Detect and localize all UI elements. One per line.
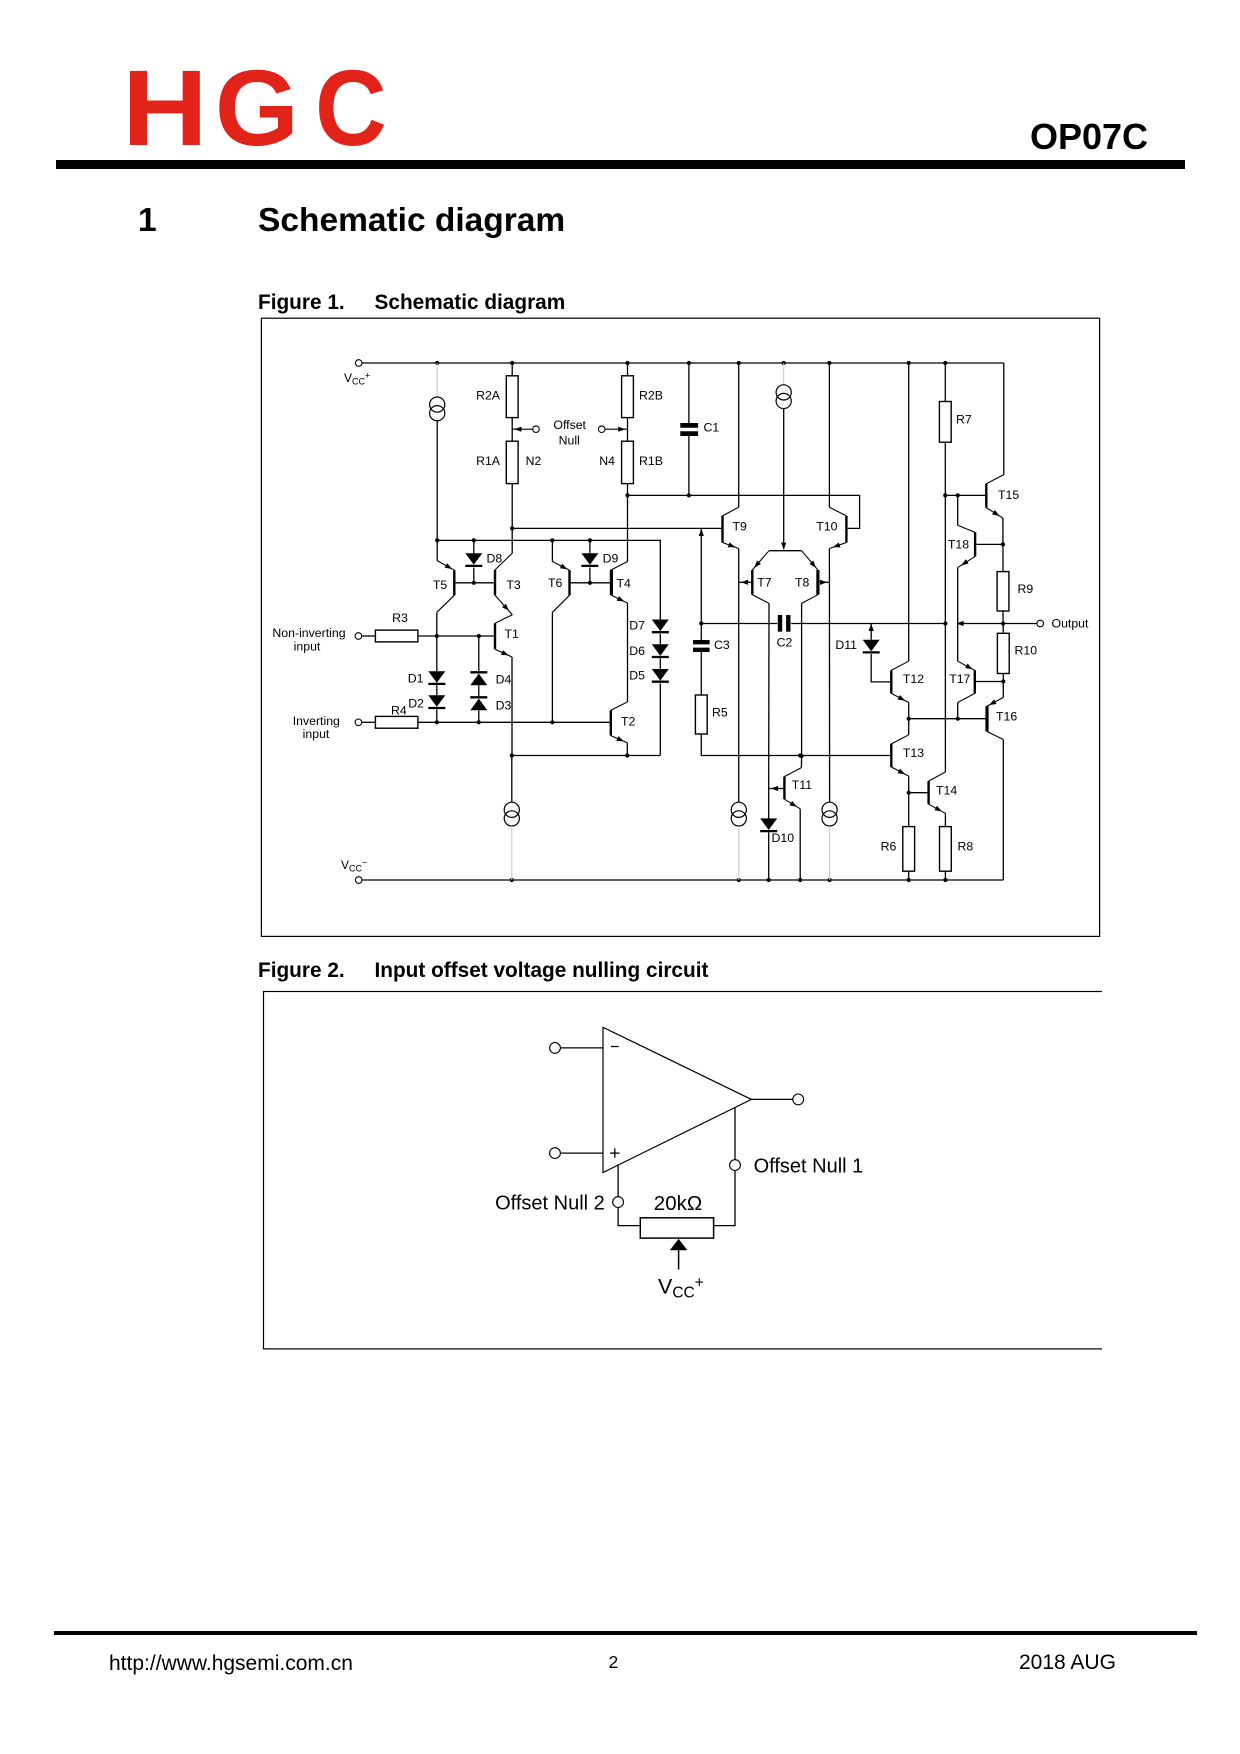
junction dots on bias bus (435, 538, 439, 542)
svg-text:C1: C1 (704, 421, 720, 435)
svg-text:Inverting: Inverting (293, 714, 340, 728)
wire D8 cathode to base line (473, 568, 475, 583)
resistor R3 (375, 630, 418, 642)
wire T11 base stub (769, 788, 784, 790)
wire R3 to T1 base (418, 635, 494, 637)
svg-text:VCC+: VCC+ (658, 1274, 704, 1301)
wire VCC- rail (362, 879, 1003, 881)
wire rail to R2B (627, 363, 629, 376)
wire T11 collector riser (800, 756, 802, 768)
diode D3 (470, 696, 487, 698)
current source I3 (504, 802, 519, 817)
svg-text:D10: D10 (772, 831, 795, 845)
svg-text:T4: T4 (617, 577, 632, 591)
non-inverting input terminal (355, 633, 362, 640)
wire I2 down to T7/T8 emitters (783, 409, 785, 549)
current source I4 (731, 802, 746, 817)
wire bias bus (437, 540, 660, 619)
wire C1 to R1B node line (688, 436, 690, 495)
svg-text:R1B: R1B (639, 454, 663, 468)
wire T7/T8 emitter bracket (769, 550, 802, 552)
op-amp inverting marker (611, 1046, 619, 1048)
offset null 2 terminal (613, 1197, 624, 1208)
resistor R8 (940, 827, 952, 872)
wire R2A to R1A (node N2) (511, 418, 513, 442)
wire offset null tap 2 (605, 428, 628, 430)
figure 1 caption (258, 293, 345, 314)
wire T13 collector riser (908, 719, 910, 735)
svg-text:R2B: R2B (639, 389, 663, 403)
svg-text:T1: T1 (505, 627, 520, 641)
wire output (751, 1098, 792, 1100)
wire output line right segment (958, 623, 1037, 625)
wire D4/D3 string (478, 636, 480, 671)
D11 wiper arrow on output line (869, 624, 874, 631)
HGC logo (122, 54, 208, 162)
svg-text:T8: T8 (795, 576, 810, 590)
output terminal (1037, 620, 1044, 627)
wire R1B down to node (627, 484, 629, 496)
wire wiper to VCC+ (678, 1250, 680, 1269)
wire T17 collector drop (957, 703, 959, 719)
svg-text:D5: D5 (629, 669, 645, 683)
wire input to R3 (362, 635, 376, 637)
wire grey tail below I3 (511, 826, 513, 880)
wire VCC+ rail corner to T15 collector (1003, 363, 1005, 475)
figure 2 caption (258, 961, 345, 982)
wire T18 base line (976, 543, 1003, 545)
diode D1 (428, 671, 445, 683)
svg-text:R10: R10 (1015, 644, 1038, 658)
capacitor C3 (693, 640, 710, 644)
wire T12 emitter to node (908, 703, 910, 719)
node dots on VCC- rail (510, 878, 514, 882)
transistor T15 (986, 475, 1019, 518)
transistor T7 (752, 551, 772, 604)
header rule (56, 160, 1185, 169)
svg-text:Offset Null 1: Offset Null 1 (754, 1156, 864, 1178)
wire T12/T16 base line (909, 718, 986, 720)
node dots on VCC+ rail (435, 361, 439, 365)
wire T9 base line (512, 527, 721, 529)
svg-text:T10: T10 (816, 520, 837, 534)
svg-text:C3: C3 (714, 638, 730, 652)
potentiometer wiper arrow (670, 1239, 688, 1250)
wire output line to R10 (1002, 624, 1004, 634)
figure 2 border frame (264, 992, 1105, 1349)
transistor T3 (495, 553, 521, 615)
svg-text:R8: R8 (958, 840, 974, 854)
wire D7-D6 (659, 634, 661, 644)
wire T9 collector riser (738, 363, 740, 507)
transistor T6 (548, 562, 570, 613)
wire input stage tail (512, 755, 661, 757)
figure 2 schematic (260, 990, 1102, 1351)
svg-text:Offset Null 2: Offset Null 2 (495, 1192, 605, 1214)
svg-text:20kΩ: 20kΩ (654, 1192, 702, 1215)
wire R7 down to T14 collector (944, 442, 946, 772)
transistor T17 (949, 661, 975, 702)
wire non-inverting input (560, 1152, 603, 1154)
diode D8 (465, 553, 482, 565)
wire D10 to VCC- rail (768, 832, 770, 880)
wire R5 to T13 base (701, 734, 890, 756)
wire rail to R7 (944, 363, 946, 402)
svg-text:T5: T5 (433, 578, 448, 592)
svg-text:T15: T15 (998, 488, 1019, 502)
wire offset null 2 drop (617, 1165, 619, 1197)
svg-text:D11: D11 (835, 638, 857, 652)
junction C3 riser on T9 base line (wiper arrow) (699, 529, 704, 536)
transistor T5 (433, 560, 454, 612)
resistor R5 (695, 695, 707, 734)
diode D4 (470, 671, 487, 673)
wire T11 emitter drop (799, 809, 801, 880)
footer date (1019, 1652, 1116, 1673)
resistor R2B (622, 376, 634, 418)
wire T6 collector drop to inverting line (551, 612, 553, 722)
wire compensation line C2 to output (791, 623, 947, 625)
non-inverting input terminal (550, 1148, 561, 1159)
diode D5 (652, 669, 669, 681)
current source I1 (430, 397, 445, 412)
wire R1B node to T10 base loop (628, 495, 860, 528)
wire offset null tap 1 (512, 428, 533, 430)
wire grey tail above current source I1 (436, 363, 438, 397)
figure 1 border frame (261, 318, 1099, 936)
wire T12 collector riser to rail (908, 363, 910, 661)
transistor T4 (611, 562, 631, 604)
svg-text:T13: T13 (903, 746, 924, 760)
junction C3 on compensation line (699, 621, 703, 625)
wire offset null 2 to potentiometer (618, 1208, 640, 1226)
wire T15 emitter to R9 (1002, 518, 1004, 572)
VCC+ terminal (355, 360, 362, 367)
wire T18 emitter drop to output line (957, 568, 959, 624)
transistor T11 (784, 768, 812, 809)
svg-text:D7: D7 (629, 619, 645, 633)
op-amp non-inverting marker (610, 1152, 619, 1154)
resistor R6 (903, 827, 915, 872)
offset null 1 terminal (730, 1160, 741, 1171)
wire T8 base stub (819, 581, 829, 583)
footer page number (609, 1654, 619, 1672)
transistor T2 (611, 702, 636, 743)
resistor R10 (997, 633, 1009, 673)
wire R2B to R1B (node N4) (627, 418, 629, 442)
figure 1 schematic (260, 317, 1102, 938)
offset null terminal 1 (533, 426, 540, 433)
wire T16 collector to VCC- rail (1002, 740, 1004, 881)
wire T1 emitter drop (511, 657, 513, 756)
svg-text:Non-inverting: Non-inverting (272, 626, 345, 640)
svg-text:D1: D1 (408, 672, 424, 686)
svg-text:N4: N4 (599, 454, 615, 468)
svg-text:D3: D3 (496, 699, 512, 713)
diode D2 (428, 695, 445, 707)
wire input to R4 (362, 721, 376, 723)
wire D11 from output line (870, 624, 872, 640)
wire C3 to R5 (700, 652, 702, 695)
svg-text:D4: D4 (496, 673, 512, 687)
wire D1/D2 string (436, 636, 438, 671)
wire T2 emitter drop (626, 743, 628, 756)
svg-text:T7: T7 (757, 576, 772, 590)
svg-text:R5: R5 (712, 706, 728, 720)
transistor T12 (891, 661, 924, 702)
junction R1B bottom (625, 493, 629, 497)
current source I2 (776, 385, 791, 400)
svg-text:Output: Output (1052, 617, 1089, 631)
svg-text:D2: D2 (408, 697, 424, 711)
svg-text:R4: R4 (391, 704, 407, 718)
transistor T16 (987, 697, 1017, 739)
wire compensation line C3 to C2 (701, 623, 777, 625)
capacitor C2 (778, 615, 782, 632)
section heading (258, 204, 565, 238)
wire T5-T3 base line (456, 582, 494, 584)
potentiometer 20k (640, 1218, 713, 1238)
svg-text:T11: T11 (792, 778, 812, 792)
wire R1A down to T3 collector (511, 484, 513, 554)
wire T6 emitter riser (551, 540, 553, 561)
resistor R1A (506, 441, 518, 483)
svg-text:T2: T2 (621, 714, 636, 728)
wire D11 to T12 base (871, 654, 890, 682)
junction R7 / T15 base line (943, 493, 947, 497)
svg-text:R6: R6 (881, 840, 897, 854)
resistor R1B (622, 441, 634, 483)
svg-text:T14: T14 (936, 784, 957, 798)
wire T14 emitter to R8 (944, 813, 946, 826)
svg-text:T18: T18 (948, 538, 969, 552)
transistor T1 (495, 615, 519, 657)
wire T7 base stub (739, 581, 751, 583)
wire D6-D5 (659, 658, 661, 669)
svg-text:T12: T12 (903, 672, 924, 686)
wire T7 collector drop (768, 603, 770, 788)
svg-text:VCC−: VCC− (341, 858, 367, 874)
svg-text:N2: N2 (526, 454, 542, 468)
junction dots on output line (943, 621, 947, 625)
wire R6 to rail (908, 871, 910, 880)
wire D5 to tail node (659, 683, 661, 755)
wire R10 to T16 emitter node (1002, 674, 1004, 698)
wire R8 to rail (944, 871, 946, 880)
wire T10 emitter drop to current source I5 (828, 549, 830, 803)
svg-text:T9: T9 (733, 520, 748, 534)
section number 1 (138, 204, 157, 238)
wire R1B node down to T4 collector (627, 495, 629, 561)
svg-text:R1A: R1A (476, 454, 501, 468)
part number OP07C (1030, 119, 1148, 155)
op-amp U1 (603, 1027, 751, 1172)
diode D10 (760, 818, 777, 830)
svg-text:T6: T6 (548, 576, 563, 590)
wire T13 emitter to R6 (908, 776, 910, 827)
wire D9 cathode to base line (589, 568, 591, 583)
wire T10 collector riser (828, 363, 830, 507)
wire grey tail above current source I2 (783, 363, 785, 385)
offset null terminal 2 (598, 426, 605, 433)
transistor T14 (929, 772, 958, 813)
transistor T18 (948, 525, 975, 567)
diode D11 (863, 640, 880, 652)
svg-text:R3: R3 (392, 611, 408, 625)
T17/T18 emitter wiper arrow on output line (956, 621, 963, 626)
transistor T8 (795, 551, 818, 604)
wire offset null 1 drop (734, 1108, 736, 1160)
inverting input terminal (550, 1043, 561, 1054)
resistor R9 (997, 572, 1009, 611)
svg-text:Null: Null (559, 434, 580, 448)
wire inverting input (560, 1047, 603, 1049)
svg-text:D8: D8 (487, 552, 503, 566)
wire rail to C1 (688, 363, 690, 423)
wire I1 to bias bus (436, 421, 438, 561)
wire T9 emitter drop to current source I4 (738, 549, 740, 803)
junction R1A / T9 base line (510, 526, 514, 530)
wire T4 emitter to T2 collector (627, 603, 629, 702)
output terminal (793, 1094, 804, 1105)
svg-text:T16: T16 (996, 710, 1017, 724)
wire T14 base line (909, 792, 928, 794)
wire offset null 1 to potentiometer (714, 1171, 735, 1226)
VCC- terminal (355, 877, 362, 884)
wire D9 anode riser (589, 540, 591, 553)
resistor R7 (939, 402, 951, 443)
wire T8 collector drop (801, 603, 803, 756)
capacitor C1 (680, 423, 698, 428)
diode D7 (652, 620, 669, 632)
transistor T9 (723, 507, 748, 548)
svg-text:D6: D6 (629, 644, 645, 658)
wire T7 collector to D10 (768, 789, 770, 819)
wire T15 base line (945, 494, 985, 496)
footer url (109, 1653, 353, 1674)
svg-text:T17: T17 (949, 672, 970, 686)
svg-text:D9: D9 (603, 552, 619, 566)
resistor R2A (506, 376, 518, 418)
transistor T10 (816, 507, 846, 548)
inverting input terminal (355, 719, 362, 726)
svg-text:input: input (294, 640, 321, 654)
svg-text:Offset: Offset (553, 418, 586, 432)
current source I5 (822, 802, 837, 817)
wire C3 riser (700, 528, 702, 640)
wire T18 collector riser (957, 495, 959, 525)
wire R9 to output line (1002, 611, 1004, 624)
svg-text:VCC+: VCC+ (344, 371, 370, 387)
wire T6-T4 base line (571, 582, 611, 584)
wire tail to current source I3 (511, 756, 513, 803)
svg-text:R7: R7 (956, 413, 972, 427)
wire T5 collector drop to non-inverting line (436, 612, 438, 636)
svg-text:C2: C2 (777, 636, 793, 650)
diode D9 (581, 553, 598, 565)
transistor T13 (891, 735, 924, 776)
wire T17 base line (976, 681, 1003, 683)
wire T17 emitter riser to output line (957, 624, 959, 662)
svg-text:T3: T3 (506, 578, 521, 592)
svg-text:R2A: R2A (476, 389, 501, 403)
wire D8 anode riser (473, 540, 475, 553)
resistor R4 (375, 716, 418, 728)
svg-text:input: input (303, 727, 330, 741)
svg-text:R9: R9 (1018, 582, 1034, 596)
wire rail to R2A (511, 363, 513, 376)
footer rule (54, 1631, 1197, 1636)
diode D6 (652, 644, 669, 656)
wire VCC+ rail (362, 362, 1004, 364)
wire R4 to T2 base (418, 721, 609, 723)
